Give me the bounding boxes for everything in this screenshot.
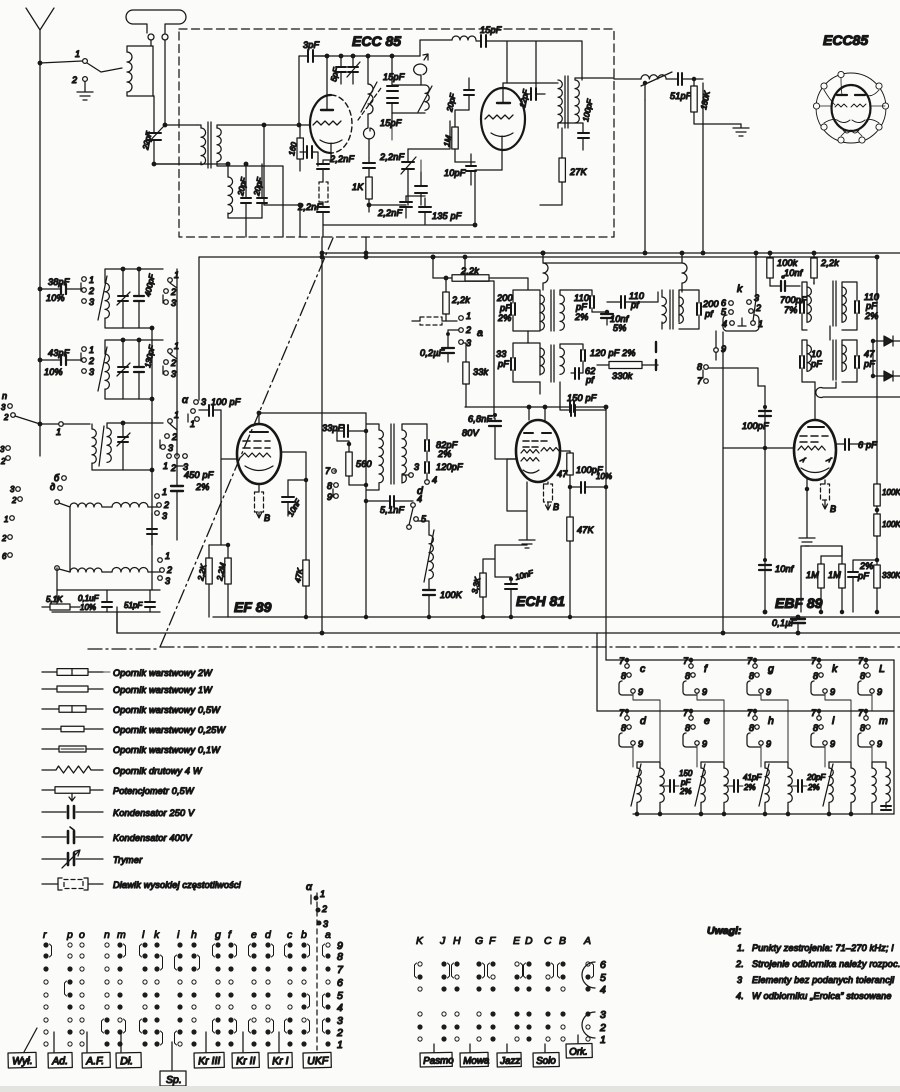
contacts 7 8 9 EF [332,469,337,474]
svg-text:8: 8 [697,362,702,372]
svg-text:Elementy bez podanych toleranc: Elementy bez podanych tolerancji [752,975,895,985]
svg-text:3pF: 3pF [303,40,320,50]
ECH81 grid2 [521,458,539,462]
band group1 top wire [105,269,163,283]
wire 3pF left down [298,56,300,125]
grid V1a [313,121,341,125]
svg-text:α: α [182,394,189,406]
svg-text:135 pF: 135 pF [432,211,462,221]
svg-text:9: 9 [830,687,835,697]
EF89 anode bar [250,431,268,433]
svg-text:2: 2 [465,325,471,335]
tube pinout envelope [832,85,871,131]
nodes on buses [763,610,767,614]
wire osc mid [408,121,450,149]
svg-text:2: 2 [599,1022,606,1034]
label Mowa [469,1044,471,1052]
svg-text:15pF: 15pF [383,72,405,82]
legend resistor 0,25W [42,728,103,730]
resistor 2,2k right [811,258,817,278]
anode V1a [321,109,333,111]
svg-text:7%: 7% [784,305,798,315]
svg-text:1: 1 [89,275,94,285]
legend capacitor 400V [42,836,103,838]
svg-text:1: 1 [190,419,195,429]
EBF89 diode plates [800,458,832,462]
left contacts cluster4 [8,535,13,540]
svg-text:400pF: 400pF [143,272,157,297]
ring coil [414,54,428,85]
wire x322 drop [321,237,323,633]
coupling bars [655,342,657,370]
svg-text:6,8nF: 6,8nF [468,414,492,424]
svg-text:ECC 85: ECC 85 [352,33,401,49]
svg-text:33k: 33k [473,367,489,377]
svg-text:2: 2 [0,457,6,466]
svg-text:560: 560 [356,459,372,469]
coupling loop [364,114,375,139]
label Sp. [171,1042,173,1070]
svg-text:2: 2 [321,904,327,914]
resistor 47 [567,453,573,475]
bus junction dots [431,255,435,259]
svg-text:9: 9 [702,739,707,749]
contacts 3 4 d [409,473,414,478]
hairpin coupling loop [816,382,900,398]
T4 core [833,340,836,380]
lower rail 2 [597,710,894,712]
svg-text:7: 7 [858,656,864,666]
wire mast down [39,63,41,424]
tube EBF89 envelope [794,420,836,480]
band group1 trimmer [118,296,128,301]
section divider horizontal [88,647,900,649]
EBF89 B resistor dashed [821,484,830,500]
svg-text:pF: pF [499,303,511,313]
svg-text:200: 200 [702,299,719,309]
svg-text:2: 2 [170,358,176,368]
svg-text:2%: 2% [679,787,692,796]
IF transformer T2c primary [662,297,666,323]
lower switch group m [864,716,868,720]
rail x177 [176,269,178,456]
svg-text:10%: 10% [596,472,612,481]
resistor 560 [346,452,352,476]
svg-text:0,1uF: 0,1uF [78,594,100,603]
svg-text:10%: 10% [46,293,65,303]
svg-text:180K: 180K [699,90,712,111]
ECH81 anode wires up [529,407,545,421]
legend capacitor 250V [42,811,103,813]
wire x645 drop from UKF [644,100,646,253]
svg-text:20pF: 20pF [236,176,249,198]
capacitor 10nF ech [505,584,517,589]
ECH81 B resistor dashed [544,484,553,502]
wire to 6.8nF [465,281,494,418]
svg-text:2: 2 [170,287,176,297]
T2c secondary [679,297,683,323]
svg-text:8: 8 [685,671,690,681]
svg-text:pF: pF [575,302,587,312]
capacitor 150pF out [570,401,574,412]
label UKF [303,1052,331,1068]
wire coil tops link [543,262,682,264]
svg-text:Opornik warstwowy 0,5W: Opornik warstwowy 0,5W [113,705,221,715]
svg-text:7: 7 [697,376,703,386]
svg-text:2%: 2% [743,783,756,792]
svg-text:Trymer: Trymer [113,855,143,865]
wire T1 primary leads [154,125,201,164]
switch S1 contact 1 [83,59,88,64]
svg-text:7: 7 [747,708,753,718]
cathode V1a [320,140,342,160]
left contacts cluster3 [16,487,21,492]
ECH81 grid zigzags [521,448,559,454]
wire bus bottom2 left riser [116,607,118,633]
svg-text:15pF: 15pF [480,25,502,35]
EF89 cathode resistor dashed [255,492,264,512]
svg-text:2%: 2% [864,311,879,321]
svg-text:1.: 1. [737,943,745,953]
EF89 cathode wire [258,484,260,492]
filter cap 20pF [798,780,802,792]
ground UKF out [733,124,749,136]
svg-text:Kr I: Kr I [272,1055,289,1067]
rail top anode [313,55,420,57]
wire anode rail [465,406,570,408]
svg-text:i: i [177,929,180,941]
rail nodes [635,812,638,815]
svg-text:3: 3 [414,462,419,472]
wire T3-T4 [829,326,831,340]
svg-text:b: b [301,929,307,941]
MW coil row2 [55,566,60,571]
wire right column [876,257,878,484]
svg-text:2,2nF: 2,2nF [379,152,404,162]
svg-text:4: 4 [432,475,437,485]
svg-text:A: A [583,935,591,947]
svg-text:EBF 89: EBF 89 [775,595,823,611]
svg-text:27K: 27K [569,167,588,177]
node diode tap [871,339,874,342]
MW coil row1 [55,500,60,505]
oscillator tank coil [418,85,432,112]
band group2 trimmer [118,367,128,372]
band group3 trimmer [118,437,128,442]
T4 secondary [842,345,846,371]
svg-text:c: c [287,929,293,941]
rail x152 [151,328,153,590]
capacitor 20pF b [257,198,267,203]
svg-text:5: 5 [337,990,343,1002]
svg-text:5pF: 5pF [329,66,341,82]
svg-text:1: 1 [600,1034,606,1046]
EBF89 anode bar [808,426,824,428]
svg-text:2%: 2% [859,561,874,571]
svg-text:pF: pF [497,359,509,369]
svg-text:Sp.: Sp. [166,1074,182,1086]
svg-text:9: 9 [766,739,771,749]
wire ebf grid [723,447,794,449]
svg-text:2%: 2% [574,312,589,322]
svg-text:3: 3 [466,338,471,348]
svg-text:Ork.: Ork. [569,1047,588,1058]
section divider dash-dot [160,238,333,647]
svg-text:G: G [475,935,483,947]
svg-text:m: m [117,929,126,941]
svg-text:330K: 330K [882,571,900,580]
oscillator coil variable [368,84,373,114]
legend choke [42,883,103,885]
svg-text:10nf: 10nf [784,268,804,278]
node anode rail [325,54,329,58]
wire x703 drop from UKF out [702,83,704,253]
svg-text:EF 89: EF 89 [234,599,272,615]
triode V1b envelope [481,88,525,150]
coil L2 padding [228,177,233,214]
resistor 330K [874,565,880,588]
anode V1b [497,102,510,104]
svg-text:k: k [832,663,838,675]
svg-text:150: 150 [679,769,693,778]
trimmer 22pF [147,133,161,140]
svg-text:47K: 47K [577,525,595,535]
svg-text:Dławik wysokiej częstotliwości: Dławik wysokiej częstotliwości [113,880,242,890]
svg-text:6: 6 [337,977,343,989]
IF transformer T2b primary [540,348,544,374]
svg-text:10: 10 [811,349,822,359]
svg-text:2%: 2% [497,313,512,323]
ECH81 anode bars [524,432,551,434]
band group2 contacts left [82,347,87,352]
svg-text:1: 1 [4,515,8,524]
oscillator tank loop [392,85,425,113]
svg-text:L: L [879,663,885,675]
svg-text:2: 2 [3,413,9,422]
resistor 2,2K grid [206,558,212,584]
scan edge band [0,1086,900,1092]
svg-text:1: 1 [75,49,80,59]
resistor 47K ech [567,517,573,541]
band group1 contacts right [168,278,173,283]
svg-text:Opornik warstwowy 0,1W: Opornik warstwowy 0,1W [113,745,221,755]
svg-text:B: B [264,513,270,523]
wire bus left drop [198,257,200,400]
svg-text:α: α [306,881,313,893]
svg-text:д: д [50,482,55,492]
svg-text:C: C [544,935,552,947]
svg-text:7: 7 [683,656,689,666]
resistor 1K [366,177,372,199]
svg-text:2%: 2% [807,783,820,792]
lower switch group i [817,716,821,720]
EF89 screen dashes [243,441,270,448]
svg-text:2: 2 [166,565,172,575]
wire x606 down [605,407,607,660]
band group1 contacts left [82,277,87,282]
svg-text:6 pF: 6 pF [858,440,877,450]
node 150pF out [604,405,608,409]
svg-text:9: 9 [830,739,835,749]
svg-text:c: c [640,663,646,675]
svg-text:4: 4 [417,494,422,504]
ECH81 osc grid loop [507,459,527,511]
svg-text:2: 2 [170,463,176,473]
svg-text:Ad.: Ad. [51,1055,68,1067]
svg-text:9: 9 [702,687,707,697]
svg-text:9: 9 [721,344,726,354]
svg-text:Punkty zestrojenia: 71–270 kHz: Punkty zestrojenia: 71–270 kHz; l [752,943,894,953]
pin 8 [882,103,888,109]
svg-text:2%: 2% [195,482,210,492]
svg-text:4: 4 [600,984,606,996]
EF89 grid zigzag [241,453,271,457]
svg-text:Opornik warstwowy 0,25W: Opornik warstwowy 0,25W [113,725,226,735]
svg-text:f: f [228,929,232,941]
filter coil 5a [872,768,876,802]
svg-text:5: 5 [421,514,427,524]
svg-text:A.F.: A.F. [85,1055,104,1067]
resistor 180K [691,86,697,112]
svg-text:3: 3 [1,403,6,412]
svg-text:k: k [737,283,743,295]
svg-text:Dł.: Dł. [120,1055,133,1067]
lower switch group h [753,716,757,720]
T5 wires [366,413,379,617]
oscillator coil bank [429,535,433,579]
svg-text:1: 1 [337,1039,343,1051]
svg-text:3: 3 [0,445,5,454]
svg-text:12pF: 12pF [518,88,531,109]
contacts 9 8 7 [714,348,719,353]
svg-text:f: f [704,663,708,675]
label Pasmo [433,1044,435,1052]
svg-text:k: k [154,929,160,941]
resistor 27K [559,158,565,182]
T2b secondary [560,348,564,374]
svg-text:UKF: UKF [307,1055,329,1067]
svg-text:9: 9 [877,739,882,749]
svg-text:100 pF: 100 pF [211,397,241,407]
heater arcs [843,130,859,133]
svg-text:2: 2 [171,432,177,442]
pin wiring [820,78,885,136]
resistor 2,2M [225,558,231,584]
svg-text:6: 6 [2,552,7,561]
svg-text:pF: pF [865,301,877,311]
svg-text:8: 8 [749,723,754,733]
filter cap 41pF [734,780,738,792]
svg-text:B: B [830,504,836,514]
svg-text:Kr III: Kr III [198,1055,220,1067]
svg-text:100pF: 100pF [742,421,769,431]
wire dipole right down [164,40,166,125]
tube pinout ECC85 outer [816,73,886,143]
svg-text:10nf: 10nf [775,564,795,574]
node antenna junction [38,61,42,65]
svg-text:3: 3 [323,919,328,929]
svg-text:15pF: 15pF [380,118,402,128]
node grid feed [262,123,266,127]
wire riser x597 [596,633,598,711]
antenna mast [26,8,54,63]
node x322 bus [320,251,324,255]
trimmer AFC [402,162,414,169]
pin 3 [813,103,819,109]
wire 51pF down [644,83,646,100]
label A.F. [86,1032,88,1052]
wire diodes left [872,341,874,376]
cathodes inside [837,120,865,123]
svg-text:3: 3 [600,1009,606,1021]
wire V1b anode to IF [503,82,558,84]
pin 2 [821,83,827,89]
legend resistor drutowy [42,766,103,773]
capacitor 10nF ebf [759,565,771,570]
svg-text:g: g [768,663,774,675]
contacts 4 5 osc [411,503,416,508]
EBF89 cathode [801,468,829,473]
svg-text:10nF: 10nF [286,497,303,518]
svg-text:8: 8 [621,723,626,733]
svg-text:n: n [104,929,110,941]
svg-text:8: 8 [813,723,818,733]
svg-text:330k: 330k [612,371,633,381]
wire bus bottom1 [213,616,900,618]
resistor 100K b [874,514,880,536]
svg-text:22pF: 22pF [141,130,154,152]
legend resistor 0,5W [42,708,103,710]
wire grid ECH [495,458,516,460]
diode D1 [884,336,893,346]
svg-text:pf: pf [704,309,714,319]
switch S1 lever [87,63,122,72]
wire to transformer [165,124,197,126]
wire 100pF to grid EF89 [221,410,238,459]
filter coil 5b [886,768,890,802]
triode V1a envelope [310,95,331,153]
transformer T1 core [208,122,211,168]
filter coil 3b [788,768,792,802]
svg-text:Wył.: Wył. [12,1055,33,1067]
svg-text:pf: pf [585,375,595,385]
EBF89 cathode down [806,479,808,489]
label Kr II [242,1032,244,1052]
svg-text:9: 9 [766,687,771,697]
svg-text:10%: 10% [80,603,96,612]
lower switch group e [689,716,693,720]
resistor 1M [452,127,458,149]
wire UKF IF out [614,78,641,80]
lower switch group L [864,664,868,668]
svg-text:100K: 100K [882,520,900,529]
ground [77,82,93,100]
wire x465 drop to ECH [464,257,466,281]
svg-text:W odbiorniku „Eroica” stosowan: W odbiorniku „Eroica” stosowane [752,991,892,1001]
svg-text:2: 2 [163,500,169,510]
resistor 33k [463,362,469,384]
svg-text:20pF: 20pF [252,176,265,198]
capacitor 10pF mid [415,186,427,193]
svg-text:8: 8 [327,481,332,491]
filter coil 2b [724,768,728,802]
EF89 screen wire [281,452,306,560]
svg-text:1K: 1K [352,182,364,192]
filter coil 2a [701,768,705,802]
IF output transformer [558,80,562,123]
svg-text:4: 4 [337,1002,343,1014]
svg-text:5,1K: 5,1K [46,595,63,604]
